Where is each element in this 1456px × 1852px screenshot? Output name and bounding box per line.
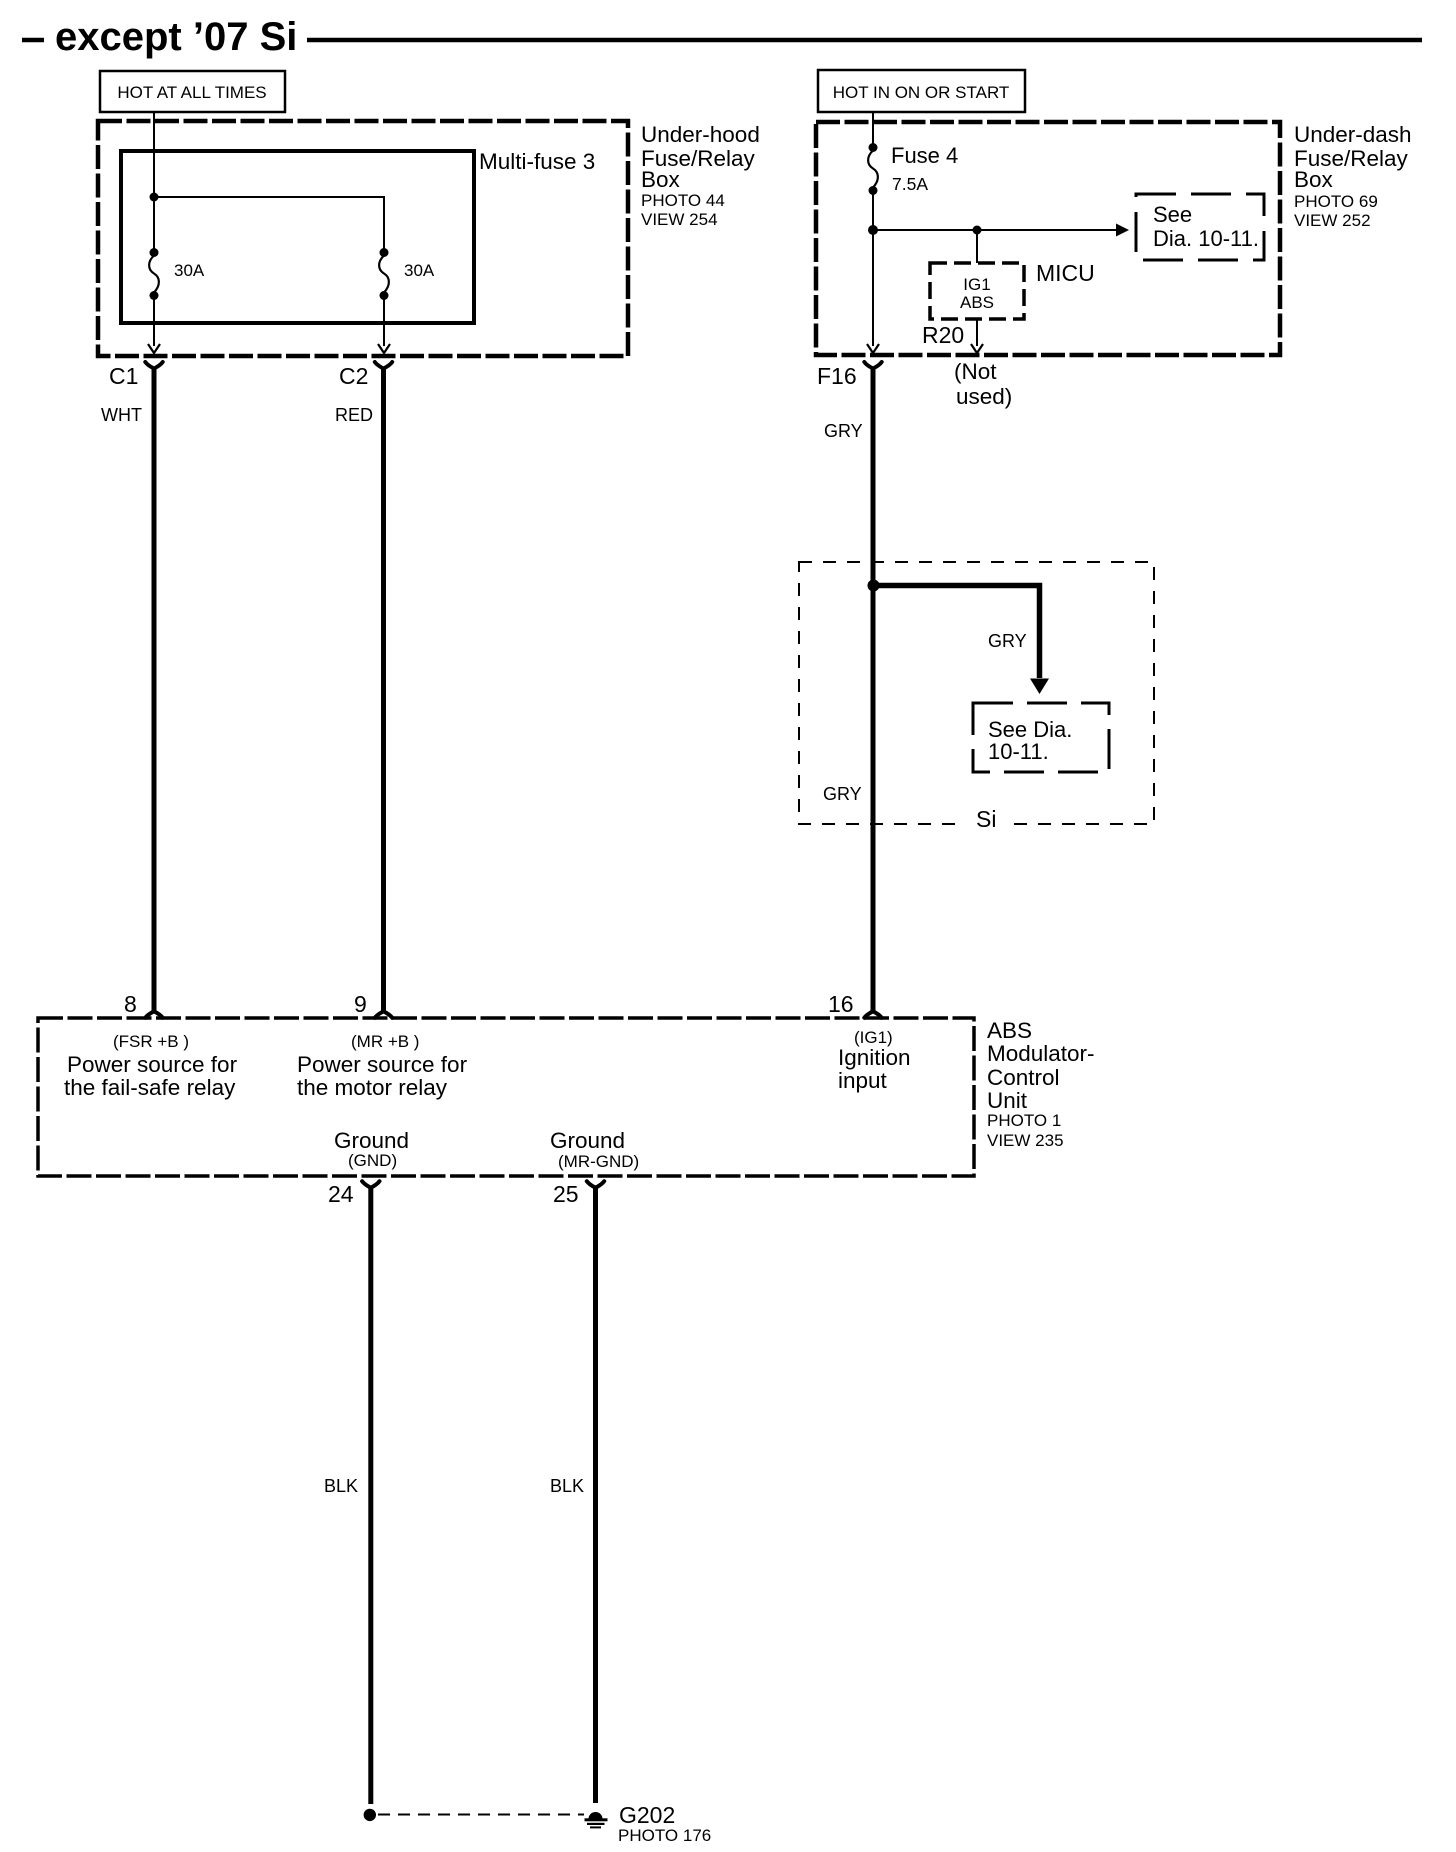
arrowhead Si branch	[1030, 679, 1049, 695]
arrowhead at C2	[378, 344, 390, 353]
pin 8 connector	[145, 1011, 162, 1018]
svg-text:HOT AT ALL TIMES: HOT AT ALL TIMES	[117, 83, 266, 102]
wire fuse A to connector C1	[153, 296, 155, 346]
svg-text:PHOTO 44: PHOTO 44	[641, 191, 725, 210]
svg-text:ABS: ABS	[987, 1018, 1032, 1043]
svg-text:PHOTO 69: PHOTO 69	[1294, 192, 1378, 211]
svg-text:24: 24	[328, 1181, 354, 1207]
multi-fuse 3 box	[121, 151, 474, 323]
wire Fuse 4 to connector F16	[872, 190, 874, 346]
wire HOT IN ON OR START to Fuse 4	[872, 112, 874, 147]
fuse F4	[868, 143, 878, 195]
pin 16 connector	[864, 1011, 881, 1018]
node HOT IN ON OR START	[818, 70, 1025, 112]
svg-text:Under-dash: Under-dash	[1294, 122, 1412, 147]
svg-text:Box: Box	[1294, 167, 1334, 192]
arrowhead to See Dia. 10-11.	[1116, 224, 1129, 237]
label ABS modulator-control unit	[987, 1018, 1095, 1150]
fuse B 30A	[379, 248, 389, 300]
svg-text:BLK: BLK	[324, 1476, 358, 1496]
svg-text:See: See	[1153, 202, 1192, 227]
pin 24 connector	[362, 1181, 379, 1188]
splice node dot	[364, 1809, 376, 1821]
svg-text:PHOTO 176: PHOTO 176	[618, 1826, 711, 1845]
wire RED C2 to pin 9	[381, 367, 386, 1011]
under-dash fuse/relay box	[816, 122, 1280, 355]
svg-text:(GND): (GND)	[348, 1151, 397, 1170]
svg-text:the motor relay: the motor relay	[297, 1075, 448, 1100]
svg-text:9: 9	[354, 991, 367, 1017]
svg-text:30A: 30A	[174, 261, 205, 280]
title tick mark	[22, 38, 44, 43]
svg-text:Power source for: Power source for	[67, 1052, 238, 1077]
wire BLK pin 24 to G202	[368, 1187, 373, 1804]
svg-text:PHOTO 1: PHOTO 1	[987, 1111, 1061, 1130]
svg-text:Power source for: Power source for	[297, 1052, 468, 1077]
under-hood fuse/relay box	[98, 121, 628, 356]
ground G202	[585, 1812, 608, 1828]
svg-text:RED: RED	[335, 405, 373, 425]
svg-text:used): used)	[956, 384, 1012, 409]
fuse A 30A	[149, 248, 159, 300]
node HOT AT ALL TIMES	[100, 71, 285, 112]
ABS modulator-control unit box	[38, 1018, 974, 1176]
connector C1	[145, 362, 162, 369]
svg-text:7.5A: 7.5A	[892, 174, 928, 194]
junction IG1 feed	[868, 225, 878, 235]
svg-text:Under-hood: Under-hood	[641, 122, 760, 147]
wire branch to fuse B	[154, 197, 384, 252]
junction feed split	[150, 193, 159, 202]
wire GRY branch to See Dia. (Si)	[873, 586, 1040, 679]
svg-text:(MR +B ): (MR +B )	[351, 1032, 419, 1051]
See Dia. 10-11. reference box (Si)	[973, 703, 1109, 772]
svg-text:(Not: (Not	[954, 359, 997, 384]
svg-text:Ground: Ground	[334, 1128, 409, 1153]
svg-text:HOT IN ON OR START: HOT IN ON OR START	[833, 83, 1010, 102]
svg-text:Fuse 4: Fuse 4	[891, 143, 958, 168]
label (FSR +B) power source for the fail-safe relay	[64, 1032, 238, 1100]
svg-text:BLK: BLK	[550, 1476, 584, 1496]
svg-text:16: 16	[828, 991, 854, 1017]
See Dia. 10-11. reference box	[1136, 194, 1264, 260]
label under-hood fuse/relay box	[641, 122, 760, 229]
connector F16	[864, 362, 881, 369]
svg-text:GRY: GRY	[988, 631, 1027, 651]
wire BLK pin 25 to G202	[593, 1187, 598, 1803]
svg-text:VIEW 254: VIEW 254	[641, 210, 718, 229]
svg-text:(MR-GND): (MR-GND)	[558, 1152, 639, 1171]
wire junction to MICU	[976, 230, 978, 263]
svg-text:Multi-fuse 3: Multi-fuse 3	[479, 149, 595, 174]
svg-text:Ground: Ground	[550, 1128, 625, 1153]
svg-text:Modulator-: Modulator-	[987, 1041, 1095, 1066]
label (IG1) ignition input	[838, 1028, 911, 1093]
svg-text:C2: C2	[339, 363, 368, 389]
label under-dash fuse/relay box	[1294, 122, 1412, 230]
wire HOT AT ALL TIMES to fuse A	[153, 112, 155, 252]
svg-text:WHT: WHT	[101, 405, 142, 425]
svg-text:(FSR +B ): (FSR +B )	[113, 1032, 189, 1051]
wire GRY F16 to pin 16	[871, 367, 876, 1011]
svg-text:10-11.: 10-11.	[988, 739, 1049, 764]
label ground (GND)	[334, 1128, 409, 1170]
junction MICU tap	[973, 226, 982, 235]
arrowhead at R20	[971, 344, 983, 353]
wire fuse B to connector C2	[383, 296, 385, 346]
svg-text:8: 8	[124, 991, 137, 1017]
svg-text:Ignition: Ignition	[838, 1045, 911, 1070]
title rule	[307, 38, 1422, 43]
label (Not used)	[954, 359, 1012, 409]
svg-text:MICU: MICU	[1036, 260, 1095, 286]
svg-text:30A: 30A	[404, 261, 435, 280]
svg-text:Unit: Unit	[987, 1088, 1028, 1113]
label (MR +B) power source for the motor relay	[297, 1032, 468, 1100]
svg-text:VIEW 252: VIEW 252	[1294, 211, 1371, 230]
svg-text:input: input	[838, 1068, 888, 1093]
dashed link wire to ground G202	[378, 1814, 584, 1816]
svg-text:except ’07 Si: except ’07 Si	[55, 15, 297, 59]
svg-text:Dia. 10-11.: Dia. 10-11.	[1153, 226, 1259, 251]
pin 25 connector	[587, 1181, 604, 1188]
label ground (MR-GND)	[550, 1128, 639, 1171]
svg-text:G202: G202	[619, 1802, 675, 1828]
svg-text:the fail-safe relay: the fail-safe relay	[64, 1075, 236, 1100]
svg-text:GRY: GRY	[824, 421, 863, 441]
svg-text:Box: Box	[641, 167, 681, 192]
svg-text:F16: F16	[817, 363, 857, 389]
svg-text:C1: C1	[109, 363, 138, 389]
pin 9 connector	[375, 1011, 392, 1018]
arrowhead at C1	[148, 344, 160, 353]
arrowhead at F16	[867, 344, 879, 353]
wire WHT C1 to pin 8	[152, 367, 157, 1011]
svg-text:Si: Si	[976, 806, 996, 832]
svg-text:ABS: ABS	[960, 293, 994, 312]
MICU IG1 ABS box	[930, 263, 1024, 319]
svg-text:GRY: GRY	[823, 784, 862, 804]
svg-text:25: 25	[553, 1181, 579, 1207]
svg-text:R20: R20	[922, 322, 964, 348]
junction Si branch	[868, 580, 880, 592]
Si option box	[799, 562, 1154, 828]
connector C2	[375, 362, 392, 369]
svg-text:Control: Control	[987, 1065, 1060, 1090]
svg-text:IG1: IG1	[963, 275, 990, 294]
wire to See Dia. 10-11.	[873, 229, 1117, 231]
svg-text:VIEW 235: VIEW 235	[987, 1131, 1064, 1150]
wire MICU to R20	[976, 319, 978, 346]
